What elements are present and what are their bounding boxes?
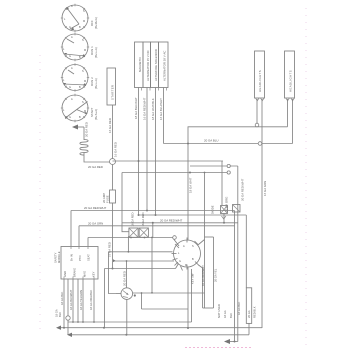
starter S1 (107, 68, 116, 105)
svg-text:(B+L+A): (B+L+A) (94, 78, 98, 89)
meter bottom wire (126, 299, 128, 334)
junction magneto wire / rail (138, 214, 140, 216)
svg-text:20 GA: 20 GA (247, 310, 251, 318)
wire v128.4 box1 left pin (127, 236, 129, 252)
wire h268.5 to key switch G pin (105, 268, 176, 270)
svg-text:16 GA RED: 16 GA RED (131, 213, 135, 227)
coil (ignition coil winding) (80, 140, 88, 156)
magneto box (135, 42, 144, 88)
svg-text:KEY: KEY (92, 271, 96, 277)
wire h261 to key switch pin with tick (115, 260, 175, 262)
junction ground rail 1 mag (82, 321, 84, 323)
svg-text:RED BLK: RED BLK (253, 306, 257, 318)
svg-text:SAFETY: SAFETY (54, 252, 58, 263)
svg-text:ALTERNATOR 15 V DC: ALTERNATOR 15 V DC (146, 50, 150, 81)
svg-text:M: M (185, 264, 187, 267)
svg-text:HEADLIGHTS: HEADLIGHTS (289, 70, 293, 92)
connector splice node B (227, 164, 230, 167)
junction ground rail 2 (63, 327, 65, 329)
svg-text:18 GA WHT: 18 GA WHT (189, 177, 193, 193)
headlights right box (285, 51, 295, 98)
wire headlight L1 pin 1 (256, 99, 258, 125)
svg-text:KEY SW: KEY SW (191, 273, 195, 284)
svg-text:B+ IN: B+ IN (70, 254, 74, 261)
wire v152.8 (152, 223, 154, 238)
svg-text:FUSE: FUSE (106, 195, 110, 203)
ammeter V (121, 288, 133, 300)
svg-text:18 GA: 18 GA (223, 310, 227, 318)
wire junction to B+ rail (113, 160, 224, 162)
wire to fuel solenoid (245, 215, 247, 288)
junction connector circle (110, 159, 116, 165)
connector splice at key switch A pin (173, 236, 177, 240)
wire magneto down (138, 88, 140, 216)
junction diode-rail (223, 222, 225, 224)
pin ticks (186, 238, 188, 243)
svg-text:MODULE: MODULE (57, 251, 61, 263)
ignition switch position circle START (61, 94, 89, 122)
svg-text:BLK: BLK (58, 312, 62, 317)
wire coil to junction J1 (84, 152, 110, 162)
ignition switch position circle RUN 2 (61, 63, 89, 91)
wire h166 (190, 165, 238, 167)
svg-text:16 GA RED/WHT: 16 GA RED/WHT (143, 97, 147, 120)
svg-text:(B+L+A): (B+L+A) (94, 47, 98, 58)
svg-text:ALTERNATOR 28 V AC: ALTERNATOR 28 V AC (163, 51, 167, 81)
svg-text:18 GA BLK/WHT: 18 GA BLK/WHT (69, 289, 73, 310)
svg-text:16 GA RED/WHT: 16 GA RED/WHT (201, 265, 205, 286)
junction alternator DC wire / rail (146, 210, 148, 212)
wire key switch loop bottom (203, 307, 214, 309)
junction ground rail 2 key line (103, 327, 105, 329)
junction ammeter ground (125, 334, 127, 336)
svg-text:18 GA WHT/BLK: 18 GA WHT/BLK (151, 98, 155, 120)
key switch connector circle (172, 238, 201, 271)
ammeter top feed (126, 261, 128, 288)
wire module pin mag (82, 279, 84, 322)
wire down to diode (221, 161, 223, 206)
wire v152 down to charge line (151, 238, 153, 293)
wire h172.5 (122, 172, 227, 174)
svg-text:STARTER: STARTER (111, 85, 115, 100)
svg-text:G: G (69, 55, 71, 58)
ignition switch position circle RUN 1 (61, 33, 89, 61)
headlight ground wire 20 GA BLU (164, 143, 293, 145)
wire starter to junction J1 (112, 105, 114, 159)
meter loop rectangle (133, 292, 205, 294)
headlights left box (255, 51, 265, 98)
svg-text:20 GA GRN: 20 GA GRN (88, 222, 103, 226)
svg-text:16 GA RED: 16 GA RED (114, 142, 118, 157)
ground rail 2 with chassis arrow (58, 327, 262, 329)
svg-text:(B+M+G): (B+M+G) (94, 17, 98, 29)
wire key switch S pin diagonal (199, 240, 205, 245)
alternator DC box (143, 42, 151, 88)
ground rail 1 (68, 321, 192, 323)
svg-text:18 GA BLK/WHT: 18 GA BLK/WHT (134, 97, 138, 119)
svg-text:20 GA RED: 20 GA RED (88, 165, 103, 169)
svg-text:G: G (69, 26, 71, 29)
svg-text:18 GA BLK: 18 GA BLK (237, 301, 241, 315)
svg-text:(B+S+A): (B+S+A) (94, 109, 98, 120)
wire key switch B pin down (199, 265, 203, 308)
svg-text:16 GA RED: 16 GA RED (141, 213, 145, 227)
svg-text:AFTERFIRE SOLENOID: AFTERFIRE SOLENOID (154, 49, 158, 81)
wire module pin brake (72, 279, 74, 322)
connector splice on 20 GA BLU wire (258, 142, 262, 146)
svg-text:DIODE: DIODE (211, 205, 215, 214)
svg-text:G: G (69, 86, 71, 89)
svg-text:HEADLIGHTS: HEADLIGHTS (258, 70, 262, 92)
svg-text:16 GA RED: 16 GA RED (108, 118, 112, 133)
wire alternator DC down (146, 88, 148, 211)
wire h237.5 to key switch (88, 237, 173, 239)
wire connector arrow to coil (83, 127, 85, 140)
wire alternator AC down (163, 88, 165, 144)
wire fuel solenoid to ground rail (248, 323, 250, 334)
svg-text:BLK: BLK (229, 313, 233, 318)
wire v122 (122, 173, 129, 232)
wire v108.5 down around to ammeter (109, 252, 117, 294)
wire headlight L2 pin 2 (292, 99, 294, 144)
junction magneto wire / B+ wire (138, 160, 140, 162)
connector splice on headlight feed (255, 123, 259, 127)
svg-text:18 GA ORG/BLK: 18 GA ORG/BLK (89, 290, 93, 310)
ignition switch position circle OFF (61, 4, 89, 32)
wire module pin key (93, 279, 95, 322)
svg-text:20 GA RED/WHT: 20 GA RED/WHT (160, 219, 183, 223)
svg-text:M: M (84, 80, 86, 83)
connector pair near rails (233, 205, 241, 213)
rail h225.8 (79, 225, 235, 227)
rail h222.8 (122, 222, 238, 224)
connector arrow below START circle (72, 125, 78, 130)
diode / connector D1 (221, 206, 228, 214)
junction S riser / splice line (204, 172, 206, 174)
svg-text:SEAT: SEAT (87, 254, 91, 261)
fold crease dotted line left (39, 55, 41, 335)
svg-text:M: M (83, 20, 85, 23)
svg-text:M: M (84, 110, 86, 113)
svg-text:G: G (69, 116, 71, 119)
afterfire solenoid box (151, 42, 159, 88)
junction connector C1 pin (130, 237, 132, 239)
svg-text:GND: GND (63, 271, 67, 277)
module top pin wires (70, 211, 72, 247)
alternator AC box (159, 42, 169, 88)
fuse F1 20A (110, 190, 116, 203)
svg-text:PTO: PTO (78, 256, 82, 261)
pink watermark bottom (185, 347, 253, 349)
svg-text:MAGNETO: MAGNETO (138, 57, 142, 72)
junction key feed wire (189, 172, 191, 174)
svg-text:20 GA ORG: 20 GA ORG (225, 196, 229, 212)
wire diode to rail (223, 214, 225, 223)
rail h210.5 (71, 210, 235, 212)
svg-text:18 GA: 18 GA (55, 309, 59, 317)
junction afterfire wire / rail (155, 214, 157, 216)
wire module ground lead (67, 279, 69, 335)
connector splice node (227, 171, 230, 174)
ground arrow bottom right (224, 339, 230, 344)
key switch bottom wire (187, 267, 189, 328)
svg-text:M: M (84, 49, 86, 52)
wire key switch S riser (204, 173, 206, 309)
ground rail 3 with chassis arrow (69, 334, 249, 336)
wire from fuse down (112, 203, 114, 269)
wire key switch loop top (205, 236, 214, 238)
headlight feed wire (188, 127, 288, 241)
junction key M wire / ground rail (187, 327, 189, 329)
interlock module M1 (61, 247, 98, 280)
svg-text:20 GA RED/WHT: 20 GA RED/WHT (84, 206, 107, 210)
svg-text:18 GA BLK: 18 GA BLK (60, 291, 64, 305)
svg-text:MAG: MAG (83, 271, 87, 277)
wire accessory down to ground arrow (234, 211, 236, 342)
rail h215 (139, 214, 247, 216)
wire module pin seat (77, 279, 79, 322)
svg-text:20 GA RED: 20 GA RED (85, 122, 89, 137)
wire afterfire solenoid down (155, 88, 157, 216)
narrow box right bottom (fuel solenoid) (246, 288, 251, 324)
wire headlight L2 pin 1 (287, 99, 289, 127)
svg-text:NOT USED: NOT USED (217, 304, 221, 318)
connector circle on module wire (66, 316, 70, 320)
fold crease dotted line right (305, 8, 307, 345)
svg-text:20 GA RED/WHT: 20 GA RED/WHT (241, 178, 245, 201)
svg-text:20 GA YEL: 20 GA YEL (214, 268, 218, 282)
wire v104.5 to ground rail (104, 269, 106, 328)
junction starter wire / key ground line (112, 268, 114, 270)
wire stub into ammeter (116, 293, 121, 295)
pin ticks below engine boxes (141, 88, 143, 91)
junction connector C2 pin (144, 237, 146, 239)
wire module pin GND (63, 279, 65, 328)
svg-text:16 GA GRN: 16 GA GRN (263, 181, 267, 196)
svg-text:16 GA BLU/WHT: 16 GA BLU/WHT (159, 98, 163, 120)
svg-text:18 GA YEL/GRN: 18 GA YEL/GRN (79, 290, 83, 310)
connector pair boxes middle (129, 228, 138, 237)
wire down to fuse (112, 165, 114, 191)
wire key switch loop right (213, 237, 215, 308)
wire h251.8 to key switch L pin (109, 251, 173, 253)
svg-text:G: G (179, 260, 181, 263)
wire headlight L1 pin 2 ground 16 GA GRN (261, 99, 263, 328)
junction node L-wire (187, 143, 189, 145)
svg-text:20 GA BLU: 20 GA BLU (204, 139, 218, 143)
svg-text:BRAKE: BRAKE (73, 268, 77, 277)
wire ground rail 1 riser (191, 269, 193, 322)
